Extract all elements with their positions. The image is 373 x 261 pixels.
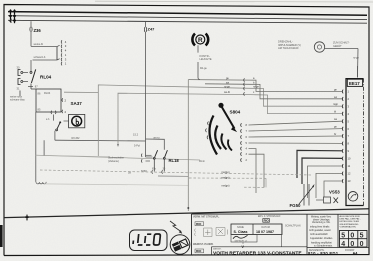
svg-text:R: R xyxy=(198,37,203,44)
svg-text:RO-B2: RO-B2 xyxy=(72,136,80,140)
svg-text:DEN FALL DER PAT.-: DEN FALL DER PAT.- xyxy=(340,218,361,221)
svg-text:me(ge): me(ge) xyxy=(222,177,230,180)
svg-text:S804: S804 xyxy=(230,110,241,115)
svg-text:RL04: RL04 xyxy=(40,75,52,80)
svg-text:VERW. MIT STROMLPL.: VERW. MIT STROMLPL. xyxy=(193,216,220,219)
svg-text:schwarz-blau: schwarz-blau xyxy=(10,99,25,102)
svg-text:B. MORS: B. MORS xyxy=(193,255,203,257)
svg-text:LEUCHTE: LEUCHTE xyxy=(200,57,212,61)
svg-text:Z36: Z36 xyxy=(34,28,42,33)
svg-text:zugestanden. Zuwider-: zugestanden. Zuwider- xyxy=(310,237,333,240)
svg-text:sw: sw xyxy=(334,96,337,99)
svg-text:me(ge): me(ge) xyxy=(222,171,230,174)
svg-text:(Variante): (Variante) xyxy=(108,160,119,163)
svg-text:nicht gestattet, soweit: nicht gestattet, soweit xyxy=(309,229,331,232)
svg-text:0: 0 xyxy=(350,241,354,248)
svg-text:5-Pol: 5-Pol xyxy=(134,144,140,147)
svg-text:GM-EINTRAGUNG: GM-EINTRAGUNG xyxy=(340,223,359,226)
svg-text:weiss-bl: weiss-bl xyxy=(34,42,44,46)
svg-text:VOITH RETARDER 133 V-CONSTANTE: VOITH RETARDER 133 V-CONSTANTE xyxy=(213,251,302,257)
svg-text:ALLE RECHTE FÜR: ALLE RECHTE FÜR xyxy=(340,215,360,218)
svg-text:GERÄT: GERÄT xyxy=(333,45,342,48)
svg-text:nicht ausdrücklich: nicht ausdrücklich xyxy=(310,233,329,236)
svg-text:VS53: VS53 xyxy=(329,190,340,195)
svg-text:ws-bl: ws-bl xyxy=(224,91,230,94)
svg-text:RIO: RIO xyxy=(264,219,270,223)
svg-text:WERKST.-HANDB.: WERKST.-HANDB. xyxy=(193,243,214,246)
svg-text:Z47: Z47 xyxy=(148,27,156,32)
svg-text:Verwertung u. Mit-: Verwertung u. Mit- xyxy=(312,221,331,224)
svg-text:4: 4 xyxy=(341,241,345,248)
svg-text:zu Schadenersatz.: zu Schadenersatz. xyxy=(314,245,333,248)
svg-text:EE17: EE17 xyxy=(349,81,360,86)
svg-text:RL04: RL04 xyxy=(44,91,51,95)
svg-text:ro-ge: ro-ge xyxy=(253,86,259,89)
svg-text:SCHALTPLAN: SCHALTPLAN xyxy=(285,224,301,227)
svg-text:schwarz-b: schwarz-b xyxy=(34,55,46,59)
svg-text:0: 0 xyxy=(350,233,354,240)
svg-text:VORBEHALTEN: VORBEHALTEN xyxy=(340,225,357,228)
svg-text:MASSST.: MASSST. xyxy=(213,247,222,250)
svg-text:handlung verpflichtet: handlung verpflichtet xyxy=(311,242,332,245)
svg-text:18 07 1987: 18 07 1987 xyxy=(256,230,274,234)
svg-text:15.2: 15.2 xyxy=(133,133,139,137)
svg-text:Rö-ge: Rö-ge xyxy=(200,67,207,70)
svg-text:Rmin: Rmin xyxy=(199,160,205,163)
svg-text:5: 5 xyxy=(360,233,364,240)
svg-text:br: br xyxy=(334,133,336,136)
svg-text:5: 5 xyxy=(341,233,345,240)
svg-text:810 - 830 ED1: 810 - 830 ED1 xyxy=(308,251,339,256)
svg-text:GEPRÜFT LT: GEPRÜFT LT xyxy=(235,240,248,243)
svg-text:RL18: RL18 xyxy=(169,158,180,163)
svg-text:ro-ge: ro-ge xyxy=(353,56,359,59)
svg-text:NAME: NAME xyxy=(237,226,244,229)
svg-text:ERS. F. STROMLAUF: ERS. F. STROMLAUF xyxy=(258,215,281,218)
svg-text:SA37: SA37 xyxy=(71,101,83,106)
svg-text:DATUM: DATUM xyxy=(262,226,270,229)
svg-text:me(ge): me(ge) xyxy=(222,185,230,188)
svg-text:ro-ge: ro-ge xyxy=(224,86,230,89)
svg-text:AM TACHOGRAF: AM TACHOGRAF xyxy=(278,46,299,50)
svg-text:sw: sw xyxy=(226,81,229,84)
svg-text:Weiterg. sowie Verv.: Weiterg. sowie Verv. xyxy=(311,216,332,219)
svg-text:dieser Unterlage,: dieser Unterlage, xyxy=(313,218,331,221)
svg-text:87b: 87b xyxy=(152,167,157,170)
svg-text:rogn: rogn xyxy=(333,103,339,106)
svg-text:S. Claas: S. Claas xyxy=(234,230,248,234)
svg-text:0: 0 xyxy=(360,241,364,248)
svg-text:teilung ihres Inhalts: teilung ihres Inhalts xyxy=(310,226,330,229)
